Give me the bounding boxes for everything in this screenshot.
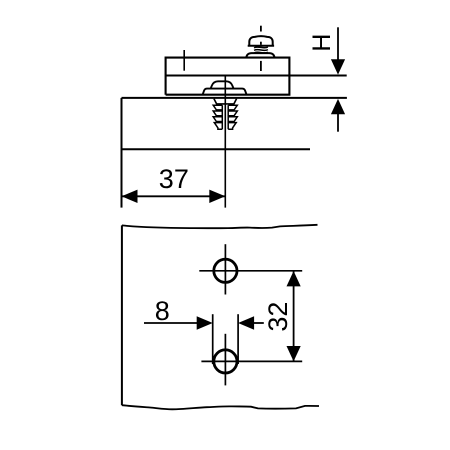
mounting plate seating line / extension line for H	[166, 74, 347, 76]
lower hole horizontal centerline	[201, 360, 302, 362]
dowel neck	[214, 99, 237, 104]
dowel ribs left	[213, 105, 222, 129]
svg-text:37: 37	[159, 164, 189, 194]
dowel centerline / extension line for 37	[224, 77, 226, 208]
lower hole	[214, 350, 237, 373]
drilling panel top broken edge	[122, 225, 318, 228]
upper hole vertical centerline	[224, 244, 226, 294]
svg-text:8: 8	[155, 296, 170, 326]
cabinet side panel bottom line	[122, 148, 311, 150]
svg-text:32: 32	[263, 302, 293, 332]
drilling panel bottom broken edge	[122, 405, 319, 409]
upper hole horizontal centerline	[199, 270, 302, 272]
mounting plate outline	[166, 58, 290, 95]
adjustment screw head	[248, 36, 274, 46]
plate slot tick	[183, 50, 185, 71]
dowel ribs right	[228, 105, 237, 129]
svg-text:H: H	[308, 34, 336, 52]
cabinet side panel top surface (section view)	[122, 97, 347, 99]
drilling panel left edge	[121, 225, 123, 405]
dimension 32 line and arrows	[287, 271, 301, 361]
cabinet side panel left edge / extension line for 37	[121, 98, 123, 208]
lower hole vertical centerline	[224, 334, 226, 386]
dimension 8 extension lines	[213, 314, 238, 364]
dimension 8 leader and arrows	[144, 316, 264, 329]
dimension H lower line	[331, 99, 345, 132]
adjustment screw thread	[254, 47, 268, 53]
euro screw dome in plate	[211, 81, 234, 88]
dimension 37 line and arrows	[122, 190, 226, 203]
adjustment screw flange	[246, 53, 274, 58]
dowel slot lines	[222, 105, 228, 129]
euro screw washer	[203, 89, 247, 95]
dimension H upper line	[331, 27, 345, 74]
upper hole	[214, 259, 237, 282]
adjustment screw centerline (dashed)	[260, 26, 262, 71]
